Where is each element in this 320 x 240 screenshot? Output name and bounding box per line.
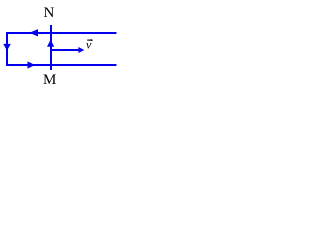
svg-text:N: N [44, 5, 55, 21]
svg-text:M: M [43, 72, 56, 88]
